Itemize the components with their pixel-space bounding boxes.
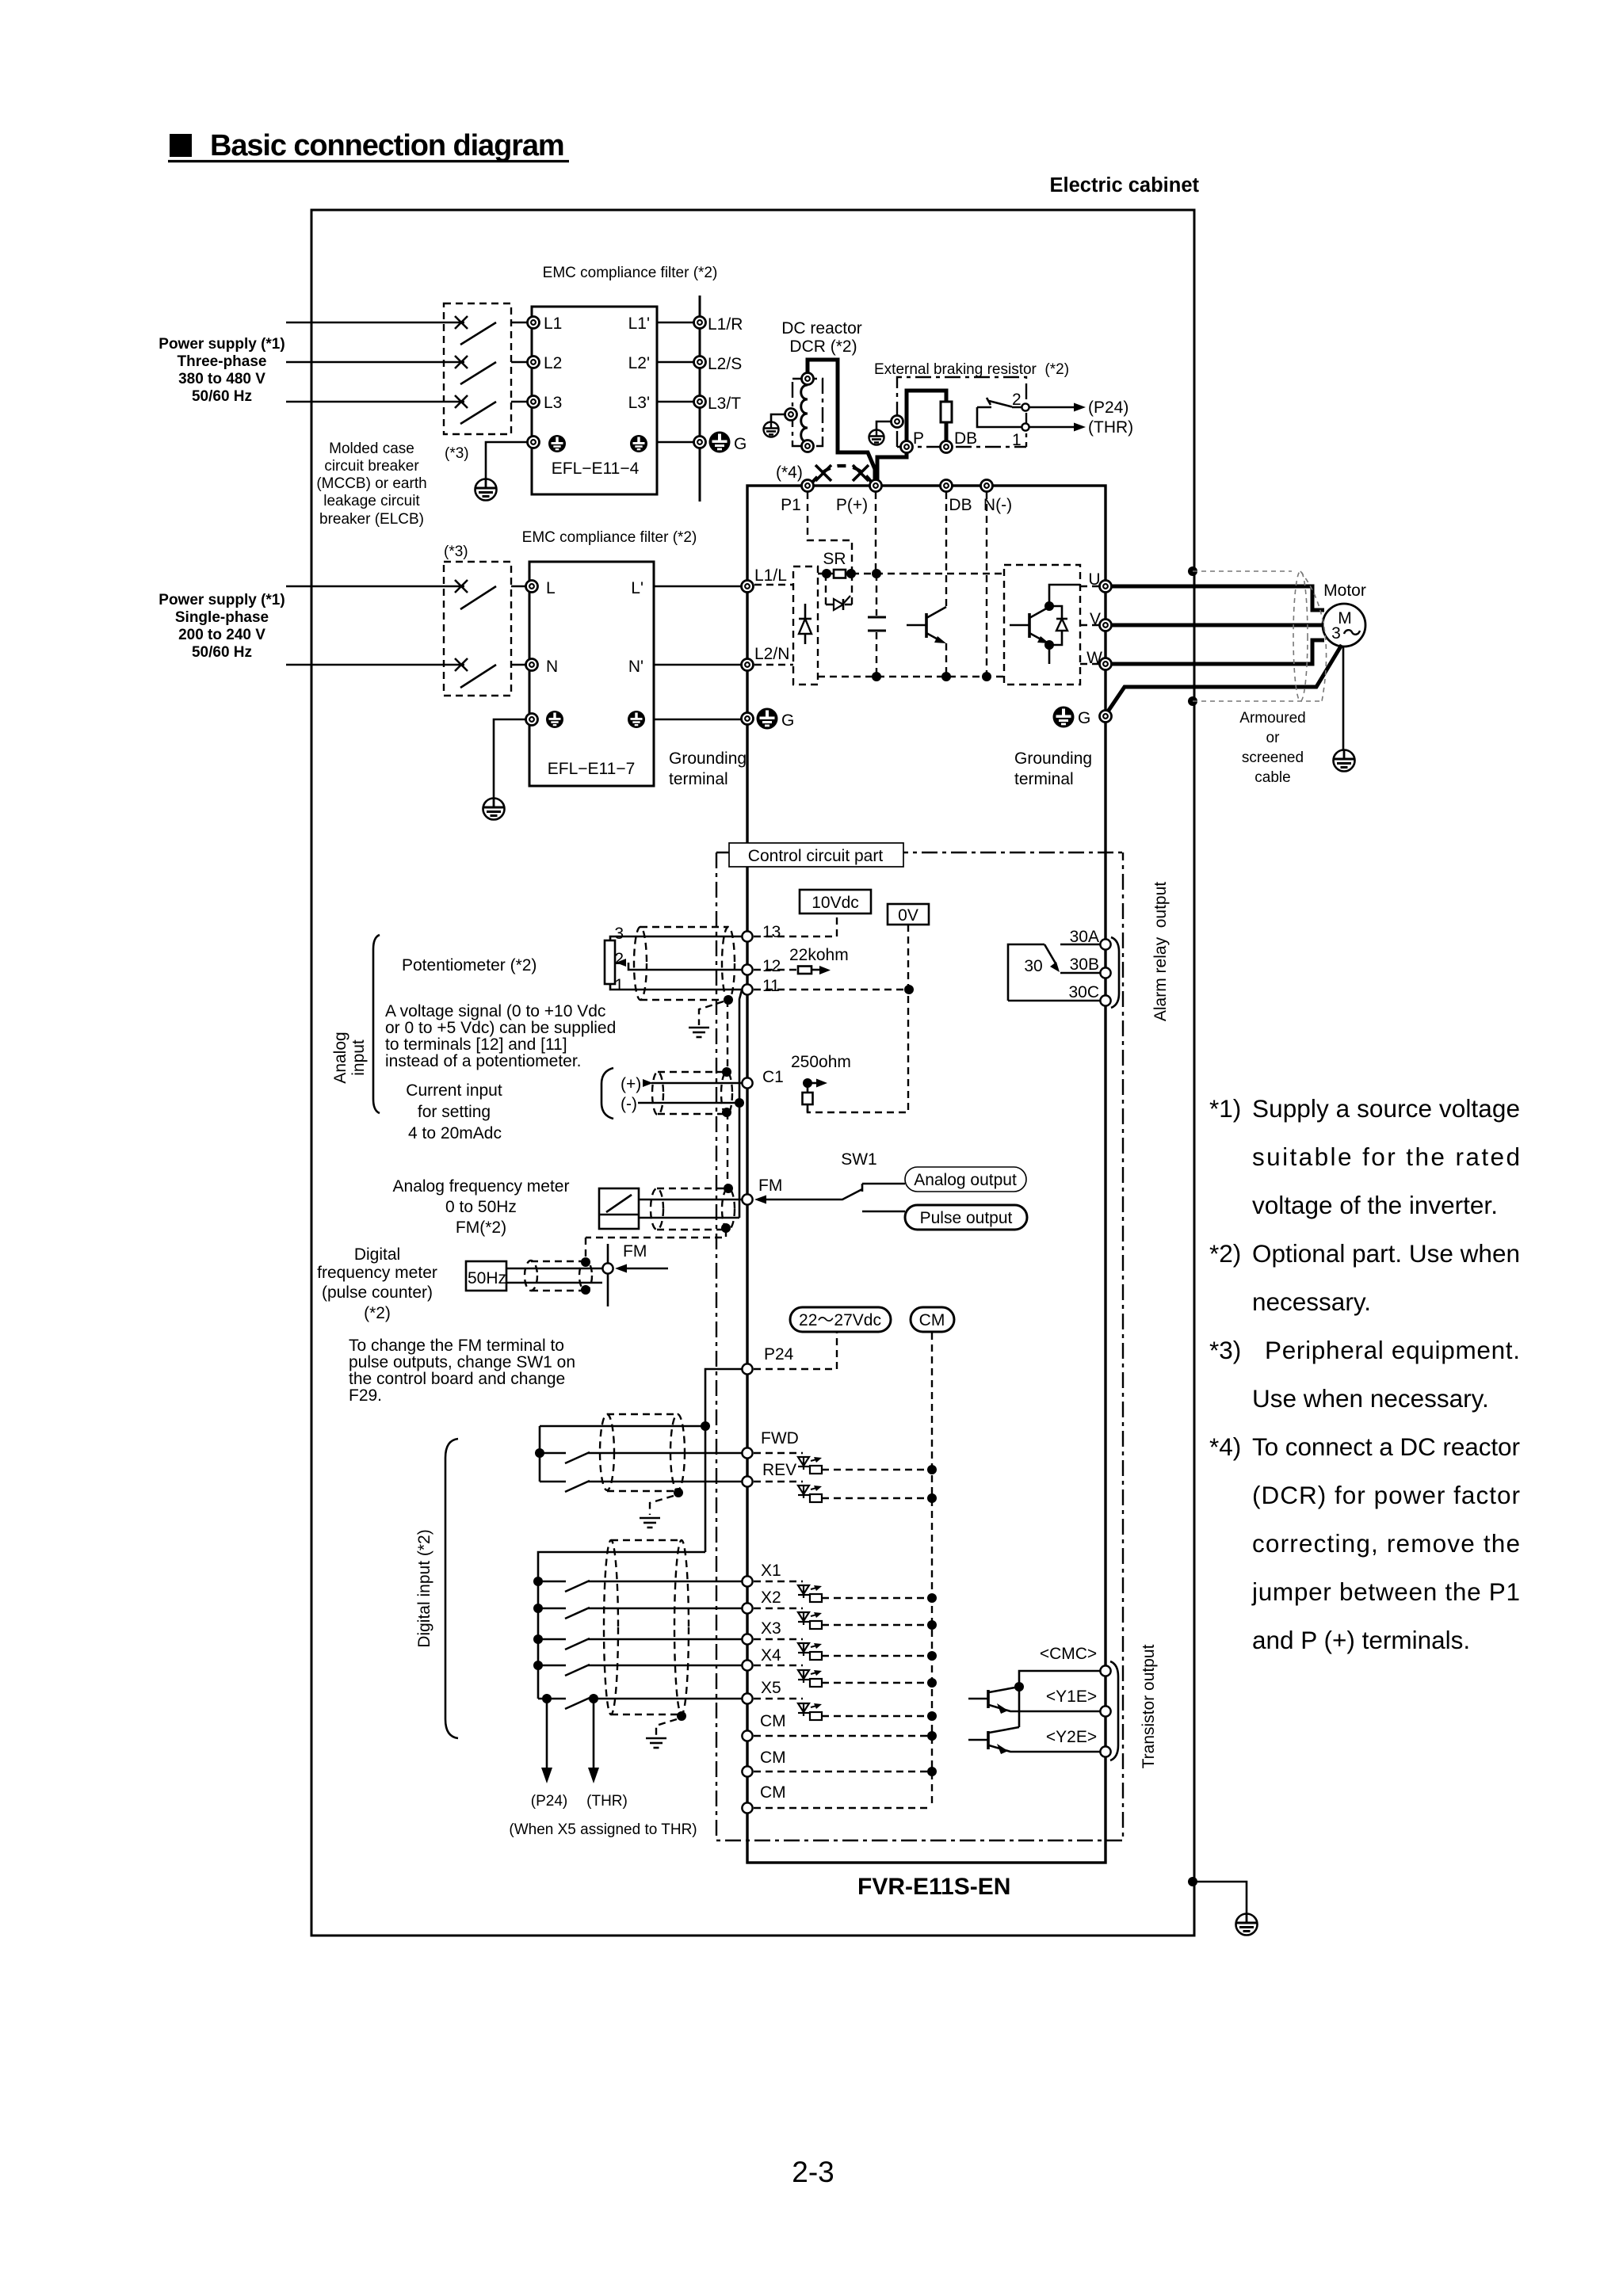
svg-text:Transistor output: Transistor output — [1140, 1644, 1158, 1768]
svg-text:<Y1E>: <Y1E> — [1046, 1688, 1097, 1706]
svg-text:Alarm relay output: Alarm relay output — [1151, 882, 1170, 1021]
svg-text:U: U — [1088, 570, 1100, 589]
svg-text:FM: FM — [758, 1177, 782, 1195]
svg-text:N': N' — [628, 658, 643, 676]
svg-text:instead of a potentiometer.: instead of a potentiometer. — [385, 1052, 582, 1070]
svg-text:(*2): (*2) — [364, 1304, 391, 1322]
svg-text:L1': L1' — [628, 315, 650, 333]
svg-text:or: or — [1266, 730, 1281, 746]
svg-text:EFL−E11−4: EFL−E11−4 — [552, 460, 640, 478]
svg-text:250ohm: 250ohm — [791, 1053, 851, 1071]
svg-text:Basic connection diagram: Basic connection diagram — [210, 129, 564, 162]
svg-text:FWD: FWD — [761, 1429, 799, 1447]
svg-text:screened: screened — [1242, 749, 1304, 766]
svg-text:L2/N: L2/N — [754, 645, 789, 663]
svg-text:0V: 0V — [898, 906, 918, 925]
svg-text:50/60 Hz: 50/60 Hz — [192, 388, 252, 405]
svg-text:<Y2E>: <Y2E> — [1046, 1728, 1097, 1746]
svg-text:jumper between the P1: jumper between the P1 — [1251, 1577, 1520, 1606]
svg-text:SW1: SW1 — [841, 1150, 877, 1169]
svg-text:P1: P1 — [781, 496, 801, 514]
svg-text:(*3): (*3) — [445, 445, 469, 462]
svg-text:Grounding: Grounding — [669, 749, 747, 768]
svg-text:*1): *1) — [1209, 1094, 1241, 1123]
svg-text:frequency meter: frequency meter — [317, 1264, 437, 1282]
svg-text:30B: 30B — [1070, 955, 1099, 974]
svg-text:correcting, remove the: correcting, remove the — [1252, 1529, 1520, 1558]
svg-text:CM: CM — [760, 1749, 786, 1767]
svg-text:input: input — [349, 1039, 368, 1076]
svg-text:Armoured: Armoured — [1239, 710, 1305, 727]
svg-text:(DCR) for power factor: (DCR) for power factor — [1252, 1481, 1520, 1509]
svg-text:1: 1 — [614, 976, 624, 994]
svg-text:Digital input (*2): Digital input (*2) — [415, 1529, 433, 1647]
svg-text:2: 2 — [614, 950, 624, 968]
svg-text:L1/L: L1/L — [754, 566, 787, 585]
svg-text:380 to 480 V: 380 to 480 V — [178, 371, 265, 387]
svg-text:Pulse output: Pulse output — [920, 1209, 1013, 1227]
svg-text:terminal: terminal — [1014, 770, 1074, 788]
svg-text:1: 1 — [1012, 431, 1022, 449]
svg-text:Current input: Current input — [406, 1081, 502, 1100]
svg-text:Power supply (*1): Power supply (*1) — [158, 336, 285, 353]
svg-text:FM: FM — [623, 1242, 647, 1261]
svg-text:the control board and change: the control board and change — [349, 1370, 565, 1388]
svg-text:L1: L1 — [544, 315, 562, 333]
svg-text:Use when necessary.: Use when necessary. — [1252, 1384, 1489, 1413]
svg-text:Three-phase: Three-phase — [178, 353, 267, 370]
svg-text:Potentiometer (*2): Potentiometer (*2) — [402, 956, 537, 974]
svg-text:EFL−E11−7: EFL−E11−7 — [548, 760, 636, 778]
svg-text:voltage of the inverter.: voltage of the inverter. — [1252, 1191, 1498, 1219]
svg-text:10Vdc: 10Vdc — [811, 894, 859, 912]
svg-text:3: 3 — [614, 925, 624, 943]
svg-text:30A: 30A — [1070, 928, 1099, 946]
svg-text:3: 3 — [1331, 624, 1341, 643]
svg-text:*4): *4) — [1209, 1432, 1241, 1461]
svg-text:EMC compliance filter (*2): EMC compliance filter (*2) — [543, 265, 718, 281]
svg-text:P(+): P(+) — [836, 496, 868, 514]
svg-text:P24: P24 — [764, 1345, 794, 1363]
svg-text:To change the FM terminal to: To change the FM terminal to — [349, 1337, 564, 1355]
svg-text:4 to 20mAdc: 4 to 20mAdc — [408, 1124, 502, 1142]
svg-text:22～27Vdc: 22～27Vdc — [799, 1311, 881, 1329]
svg-text:CM: CM — [919, 1311, 945, 1329]
svg-text:<CMC>: <CMC> — [1040, 1645, 1097, 1663]
svg-text:50/60 Hz: 50/60 Hz — [192, 644, 252, 661]
svg-text:L2/S: L2/S — [708, 355, 742, 373]
svg-text:(MCCB) or earth: (MCCB) or earth — [316, 475, 426, 492]
svg-text:Electric cabinet: Electric cabinet — [1050, 174, 1200, 196]
svg-text:C1: C1 — [762, 1068, 784, 1086]
svg-text:Analog frequency meter: Analog frequency meter — [393, 1177, 570, 1196]
svg-text:DB: DB — [954, 429, 977, 448]
svg-text:13: 13 — [762, 923, 781, 941]
svg-text:2-3: 2-3 — [792, 2156, 834, 2188]
svg-text:V: V — [1090, 610, 1101, 628]
svg-text:(When X5 assigned to THR): (When X5 assigned to THR) — [509, 1821, 697, 1838]
svg-text:22kohm: 22kohm — [789, 946, 849, 964]
svg-text:for setting: for setting — [418, 1103, 491, 1121]
svg-text:(THR): (THR) — [586, 1793, 628, 1810]
svg-text:(-): (-) — [621, 1095, 637, 1113]
svg-text:Peripheral equipment.: Peripheral equipment. — [1265, 1336, 1520, 1364]
svg-text:G: G — [734, 435, 747, 453]
svg-text:DC reactor: DC reactor — [781, 319, 862, 338]
svg-text:to terminals [12] and [11]: to terminals [12] and [11] — [385, 1035, 567, 1054]
svg-text:G: G — [1078, 709, 1090, 727]
svg-text:30C: 30C — [1068, 983, 1099, 1001]
svg-text:(pulse counter): (pulse counter) — [322, 1283, 433, 1302]
svg-text:P: P — [913, 429, 924, 448]
svg-text:11: 11 — [762, 977, 780, 995]
svg-text:or 0 to +5 Vdc) can be supplie: or 0 to +5 Vdc) can be supplied — [385, 1019, 616, 1037]
svg-text:DCR (*2): DCR (*2) — [789, 338, 857, 356]
svg-text:L3': L3' — [628, 394, 650, 412]
svg-text:necessary.: necessary. — [1252, 1287, 1371, 1316]
svg-text:FVR-E11S-EN: FVR-E11S-EN — [857, 1874, 1010, 1900]
svg-text:L1/R: L1/R — [708, 315, 743, 334]
svg-text:leakage circuit: leakage circuit — [323, 493, 420, 509]
svg-text:*3): *3) — [1209, 1336, 1241, 1364]
svg-text:(P24): (P24) — [531, 1793, 567, 1810]
svg-text:FM(*2): FM(*2) — [456, 1219, 506, 1237]
svg-text:pulse outputs, change SW1 on: pulse outputs, change SW1 on — [349, 1353, 575, 1371]
svg-text:terminal: terminal — [669, 770, 728, 788]
svg-text:DB: DB — [949, 496, 972, 514]
svg-text:W: W — [1086, 649, 1102, 667]
svg-text:0 to 50Hz: 0 to 50Hz — [445, 1198, 517, 1216]
svg-text:2: 2 — [1012, 391, 1022, 409]
svg-text:Analog: Analog — [331, 1032, 349, 1083]
svg-text:X3: X3 — [761, 1619, 781, 1638]
svg-text:Motor: Motor — [1323, 582, 1366, 600]
svg-text:CM: CM — [760, 1712, 786, 1730]
svg-text:SR: SR — [823, 550, 846, 568]
svg-text:N: N — [546, 658, 558, 676]
svg-text:F29.: F29. — [349, 1386, 382, 1405]
svg-text:(P24): (P24) — [1088, 399, 1128, 417]
svg-text:Analog output: Analog output — [914, 1171, 1017, 1189]
svg-text:Power supply (*1): Power supply (*1) — [158, 592, 285, 608]
svg-text:breaker (ELCB): breaker (ELCB) — [319, 511, 424, 528]
svg-text:CM: CM — [760, 1783, 786, 1802]
svg-text:(*4): (*4) — [776, 463, 803, 482]
svg-text:L3: L3 — [544, 394, 562, 412]
svg-text:Control circuit part: Control circuit part — [748, 847, 884, 865]
svg-text:Grounding: Grounding — [1014, 749, 1092, 768]
svg-text:cable: cable — [1254, 769, 1290, 786]
svg-text:12: 12 — [762, 957, 781, 975]
svg-text:(THR): (THR) — [1088, 418, 1133, 437]
svg-text:EMC compliance filter (*2): EMC compliance filter (*2) — [522, 529, 697, 546]
svg-text:L2: L2 — [544, 354, 562, 372]
svg-text:200 to 240 V: 200 to 240 V — [178, 627, 265, 643]
svg-text:Optional part. Use when: Optional part. Use when — [1252, 1239, 1520, 1268]
svg-text:Single-phase: Single-phase — [175, 609, 269, 626]
svg-text:(+): (+) — [621, 1075, 641, 1093]
svg-text:REV: REV — [762, 1461, 796, 1479]
svg-text:To connect a DC reactor: To connect a DC reactor — [1252, 1432, 1520, 1461]
svg-text:L': L' — [631, 579, 643, 597]
svg-text:30: 30 — [1024, 957, 1042, 975]
svg-text:G: G — [781, 711, 794, 730]
svg-text:*2): *2) — [1209, 1239, 1241, 1268]
svg-text:L2': L2' — [628, 354, 650, 372]
svg-text:External braking resistor (*2: External braking resistor (*2) — [874, 361, 1069, 378]
svg-text:X4: X4 — [761, 1646, 781, 1665]
svg-text:Digital: Digital — [354, 1245, 400, 1264]
svg-text:circuit breaker: circuit breaker — [324, 458, 419, 475]
svg-text:X2: X2 — [761, 1589, 781, 1607]
svg-text:(*3): (*3) — [444, 543, 468, 560]
svg-text:A voltage signal (0 to +10 Vdc: A voltage signal (0 to +10 Vdc — [385, 1002, 605, 1020]
svg-text:Supply a source voltage: Supply a source voltage — [1252, 1094, 1520, 1123]
svg-text:N(-): N(-) — [983, 496, 1012, 514]
svg-text:50Hz: 50Hz — [468, 1269, 506, 1287]
svg-text:and P (+) terminals.: and P (+) terminals. — [1252, 1626, 1470, 1654]
svg-text:X1: X1 — [761, 1562, 781, 1580]
svg-text:L: L — [546, 579, 556, 597]
svg-text:L3/T: L3/T — [708, 395, 741, 413]
svg-text:X5: X5 — [761, 1679, 781, 1697]
svg-text:Molded case: Molded case — [329, 441, 414, 457]
